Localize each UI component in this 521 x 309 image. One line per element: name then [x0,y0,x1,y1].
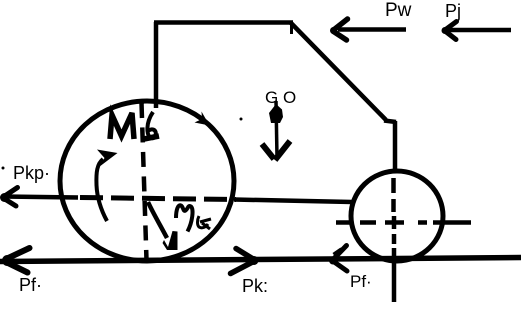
svg-text:Pf·: Pf· [19,275,42,295]
svg-text:G O: G O [265,88,296,107]
svg-text:Pw: Pw [385,0,412,21]
svg-text:Pkp·: Pkp· [13,163,50,183]
svg-text:Pf·: Pf· [350,272,372,291]
svg-text:Pk:: Pk: [242,276,268,296]
svg-text:Pj: Pj [445,1,461,21]
